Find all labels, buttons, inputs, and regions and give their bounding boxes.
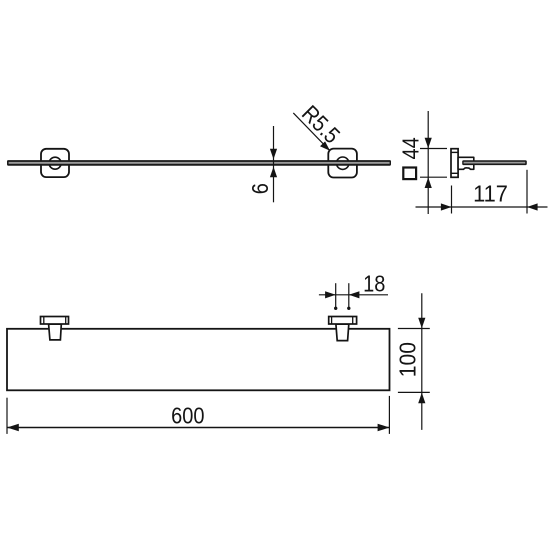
dimension 6 (glass thickness): dim line <box>273 126 275 202</box>
front view: glass shelf edge band <box>7 160 391 166</box>
side view: glass shelf (edge-on) <box>462 160 527 165</box>
dimension 6: bottom arrow <box>270 167 277 178</box>
dimension 18: extension line left with dot <box>334 283 337 310</box>
dimension 600: extension line left <box>6 398 8 434</box>
dimension 18: right arrow <box>349 291 360 298</box>
radius leader R5.5: leader line <box>293 113 329 150</box>
dimension 44 (plate height): dim line <box>427 111 429 214</box>
dimension 600: extension line right <box>388 396 390 434</box>
plan view: right bracket cap <box>329 317 357 325</box>
dimension 100: top arrow <box>418 318 425 329</box>
dimension 18: extension line right with dot <box>347 283 350 310</box>
dimension 600 (shelf length): dim line <box>7 427 389 429</box>
dimension 18 (stem width): dim line <box>319 294 388 296</box>
front view: right mounting bracket <box>328 149 357 178</box>
plan view: left bracket cap <box>41 317 69 325</box>
dimension 600: left arrow <box>7 424 19 432</box>
svg-text:44: 44 <box>397 137 424 159</box>
dimension 44: extension line top <box>420 148 447 150</box>
dimension 100: extension line top <box>398 328 430 330</box>
front view: left mounting bracket <box>41 149 69 177</box>
dimension 44: extension line bottom <box>420 176 447 178</box>
dimension 18: left arrow <box>325 291 336 298</box>
plan view: left bracket stem <box>49 324 62 340</box>
dimension 117: right arrow <box>527 203 538 210</box>
svg-text:600: 600 <box>171 402 204 429</box>
radius leader R5.5: arrowhead <box>320 141 330 150</box>
plan view: right bracket cap inner lines <box>332 317 353 325</box>
dimension 117 (arm depth): dim line <box>416 206 548 208</box>
dimension 44: square symbol <box>403 168 416 180</box>
front view: left bracket screw circle <box>49 157 61 169</box>
plan view: shelf outline <box>7 329 390 391</box>
dimension 100: bottom arrow <box>418 393 425 404</box>
side view: wall plate cap lines <box>451 152 458 173</box>
svg-text:6: 6 <box>247 183 274 194</box>
dimension 100 (shelf depth): dim line <box>421 293 423 430</box>
plan view: left bracket cap inner lines <box>44 317 66 325</box>
dimension 44: top arrow <box>425 138 432 149</box>
dimension 117: left arrow <box>441 203 452 210</box>
svg-text:100: 100 <box>395 342 421 377</box>
side view: wall plate <box>451 149 458 178</box>
dimension 600: right arrow <box>378 424 390 432</box>
svg-text:117: 117 <box>473 181 508 207</box>
dimension 100: extension line bottom <box>398 391 430 393</box>
plan view: right bracket stem <box>336 324 349 341</box>
dimension 44: bottom arrow <box>425 177 432 188</box>
dimension 117: extension line left <box>451 186 453 214</box>
dimension 6: top arrow <box>270 149 277 160</box>
front view: right bracket screw circle <box>337 157 349 169</box>
side view: shelf support arm with clamp notch <box>458 157 474 169</box>
dimension 117: extension line right <box>526 170 528 214</box>
svg-text:18: 18 <box>363 270 385 297</box>
